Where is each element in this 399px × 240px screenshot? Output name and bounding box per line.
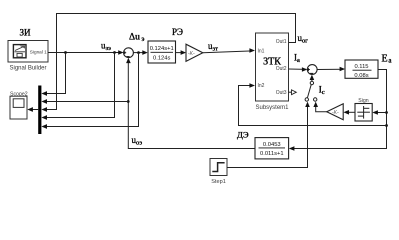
svg-text:0.08s: 0.08s: [354, 73, 368, 79]
wire: Ea output right and down feedback trunk: [294, 70, 387, 149]
wire: into Sign block: [378, 112, 387, 114]
svg-text:Signal Builder: Signal Builder: [9, 65, 46, 71]
wire: RE to gain K1: [176, 52, 185, 54]
svg-text:0.011s+1: 0.011s+1: [260, 151, 284, 157]
manual switch SW: [305, 75, 317, 102]
svg-text:ДЭ: ДЭ: [237, 129, 249, 139]
wire: Out2 to sum S2 (Ia): [289, 68, 307, 70]
gain K2 triangle (flipped): [327, 104, 344, 120]
wire: tap down to mux row4: [44, 53, 115, 118]
mux bar: [38, 86, 41, 135]
svg-text:Scope2: Scope2: [10, 91, 28, 97]
wire: delta-u tap down to mux row5: [44, 53, 139, 127]
gain K1 triangle: [186, 44, 203, 61]
svg-text:In1: In1: [258, 48, 265, 54]
wire: u_zt gain to In1: [203, 51, 250, 53]
svg-text:Step1: Step1: [211, 179, 226, 185]
transfer function DE 0.0453/0.011s+1 (flipped): [255, 138, 289, 159]
wire: sum2 to Ea block: [317, 68, 344, 70]
wire: branch to mux row2: [44, 101, 129, 103]
sum junction S2: [307, 65, 317, 75]
svg-text:РЭ: РЭ: [172, 27, 183, 37]
wire: Sign to gain K2: [349, 111, 356, 113]
node: dot on delta-u wire: [137, 51, 140, 54]
pin Out3 dangling arrow: [289, 90, 297, 95]
svg-text:Out2: Out2: [276, 66, 287, 72]
wire: u_og top feedback (Out1 right stub, up, across top, down left, into mux row 3): [44, 14, 296, 110]
node: dot Ea trunk to In2 feedback: [385, 124, 388, 127]
block Sign: [355, 104, 372, 122]
wire: mux output to Scope2: [32, 109, 38, 111]
svg-text:-K-: -K-: [188, 51, 195, 57]
svg-text:0.124s: 0.124s: [153, 56, 171, 62]
svg-text:Out1: Out1: [276, 39, 287, 45]
sum junction S1: [123, 48, 133, 58]
wire: Step1 to switch left input: [227, 105, 308, 168]
svg-text:Out3: Out3: [276, 90, 287, 96]
svg-text:0.115: 0.115: [354, 64, 368, 70]
wire: u_ze from ZI to sum1: [48, 52, 123, 54]
wire: sum1 output to RE block: [133, 52, 146, 54]
svg-text:Signal 1: Signal 1: [30, 49, 47, 54]
step source Step1: [210, 159, 227, 176]
scope Scope2: [10, 96, 27, 119]
wire: gain K2 output to switch right input: [316, 105, 327, 112]
svg-text:Sign: Sign: [358, 98, 368, 104]
subsystem ZTK: [256, 33, 289, 101]
node: tap dot u_ze to mux row1: [64, 51, 67, 54]
node: dot Ea trunk to Sign: [385, 111, 388, 114]
svg-text:0.0453: 0.0453: [263, 142, 281, 148]
signal builder block ZI: [8, 41, 48, 63]
svg-text:-K-: -K-: [332, 110, 339, 116]
wire: tap down to mux row1: [44, 53, 66, 94]
wire: long branch left then up into In2: [239, 86, 387, 126]
svg-text:In2: In2: [258, 83, 265, 89]
arrowhead into mux row3: [41, 107, 47, 112]
transfer function RE 0.124s+1/0.124s: [148, 41, 176, 63]
svg-text:ЗИ: ЗИ: [20, 28, 32, 38]
node: dot u_oe to mux row2: [127, 100, 130, 103]
svg-text:Subsystem1: Subsystem1: [255, 105, 289, 111]
node: tap dot u_ze to mux row4: [113, 51, 116, 54]
svg-text:0.124s+1: 0.124s+1: [150, 46, 174, 52]
wire: DE output left then up into sum1 minus input: [128, 59, 255, 149]
transfer function Ea 0.115/0.08s: [345, 60, 378, 79]
